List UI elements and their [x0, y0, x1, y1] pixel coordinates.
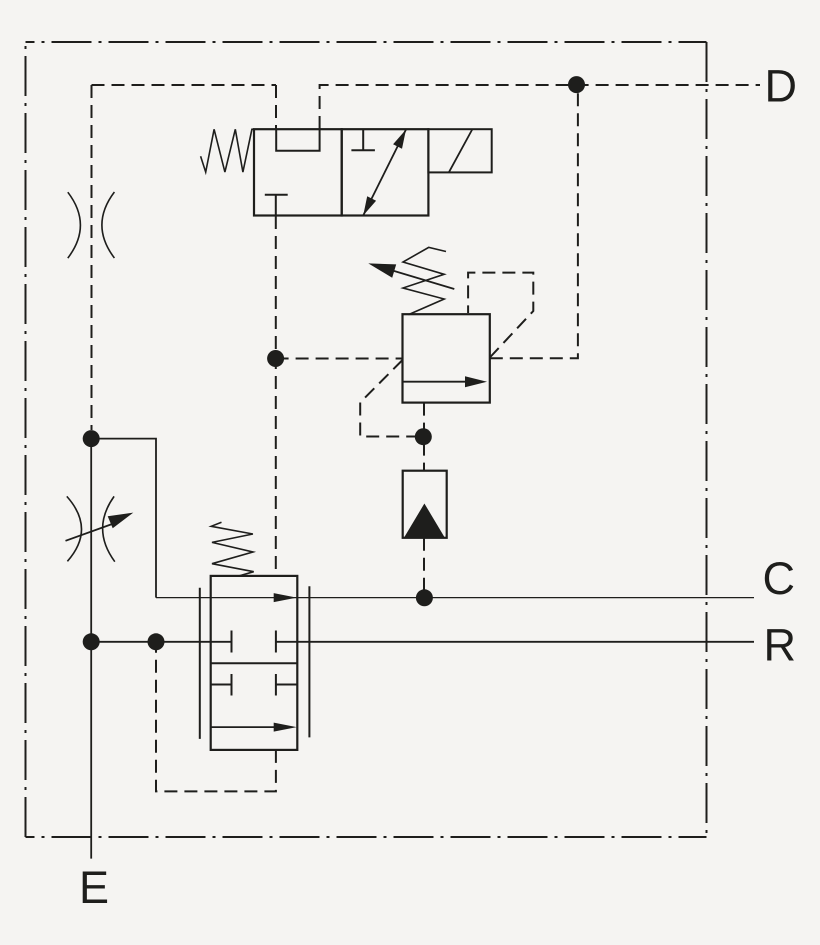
3/2 valve diagonal flow arrow [363, 130, 406, 216]
wire: reducing valve bottom port to check valve [423, 403, 425, 471]
counterbalance valve top section blocked ports [232, 631, 276, 653]
node: D junction [568, 76, 585, 93]
wire: reducing valve right port to D riser [490, 85, 578, 359]
svg-text:R: R [764, 619, 797, 670]
enclosure dash-dot border [26, 42, 707, 837]
reducing valve spring [403, 247, 446, 314]
node: reducing valve outlet junction [415, 428, 432, 445]
node: R line left junction [83, 633, 100, 650]
svg-text:E: E [79, 862, 109, 913]
counterbalance valve bottom section blocked ports [211, 674, 298, 696]
3/2 valve left box blocked port [265, 195, 288, 216]
wire: left pilot dashed vertical x=91.5 [91, 85, 93, 430]
svg-text:C: C [763, 553, 796, 604]
svg-text:D: D [765, 61, 798, 112]
counterbalance valve side rails [200, 586, 310, 739]
3/2 valve spring [201, 129, 254, 172]
wire: check valve to C line dashed [423, 538, 425, 598]
node: pilot junction [267, 350, 284, 367]
pressure reducing valve U? body [403, 314, 490, 402]
counterbalance valve spring [211, 522, 254, 576]
wire: lower valve pilot loop bottom dashed [156, 642, 276, 792]
3/2 valve left box U passage [276, 129, 319, 151]
valve 3/2 solenoid valve body [254, 129, 342, 215]
counterbalance valve bottom section arrow [211, 726, 280, 728]
wire: valve port stub x=276 top [275, 85, 277, 129]
wire: C line [156, 597, 754, 599]
reducing valve adjustment arrow [380, 267, 454, 289]
node: C line junction [416, 589, 433, 606]
3/2 valve solenoid [428, 129, 491, 172]
wire: left solid line to E [90, 439, 92, 859]
counterbalance valve body [211, 576, 298, 750]
wire: D line dashed [320, 85, 760, 129]
orifice (fixed) on pilot line [68, 192, 115, 258]
variable restrictor [67, 496, 115, 561]
wire: R line [91, 641, 231, 643]
counterbalance valve top section arrow head [274, 593, 297, 602]
3/2 valve middle box blocked top port [351, 129, 375, 150]
check valve [403, 471, 447, 538]
node: left line junction [83, 430, 100, 447]
wire: reducing valve lower-left loop dashed [360, 360, 423, 437]
wire: pilot frame top left dashed [92, 84, 277, 86]
wire: reducing valve upper feedback loop dashed [468, 273, 533, 358]
node: R line pilot junction [148, 633, 165, 650]
wire: pilot vertical x=276 (valve bottom port down to lower valve) [275, 216, 277, 576]
wire: C feed elbow solid [91, 439, 156, 598]
wire: pilot horizontal to reducing valve [276, 358, 403, 360]
reducing valve internal arrow [403, 381, 469, 383]
